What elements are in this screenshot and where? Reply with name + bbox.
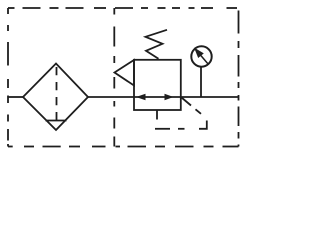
- regulator flow arrow (double-headed): [136, 94, 174, 100]
- gauge needle (filled wedge): [194, 48, 204, 59]
- wire: outlet pipe: [181, 96, 239, 98]
- enclosure dashed box - right edge: [238, 11, 240, 147]
- filter F1 (diamond): [23, 64, 88, 131]
- enclosure dashed box (FRL assembly boundary) - top edge: [8, 7, 237, 9]
- wire: pipe through regulator (flow path): [134, 96, 181, 98]
- wire: pipe filter to regulator: [88, 96, 134, 98]
- gauge needle tail: [200, 55, 209, 65]
- gauge stem: [200, 67, 202, 97]
- wire: inlet pipe: [8, 96, 23, 98]
- pilot line diagonal (dashed): [182, 98, 202, 114]
- regulator bottom stub (pilot port): [156, 110, 158, 120]
- divider dashed line between filter and regulator compartments: [113, 8, 115, 147]
- enclosure dashed box - left edge: [7, 8, 9, 147]
- regulator inlet triangle: [115, 60, 135, 86]
- enclosure dashed box - bottom edge: [8, 146, 239, 148]
- filter element (dashed centerline): [56, 67, 58, 121]
- pilot line bottom (dashed): [155, 128, 170, 130]
- filter drain chord: [46, 120, 67, 122]
- pressure gauge G1 (circle): [191, 46, 211, 66]
- regulator R1 (body box): [134, 60, 181, 110]
- spring (adjustment) on regulator top: [146, 30, 168, 59]
- pilot line corner (dashed elbow): [199, 121, 207, 129]
